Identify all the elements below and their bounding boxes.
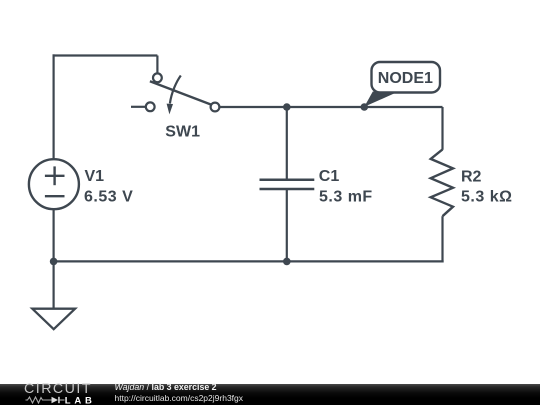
capacitor C1 — [260, 180, 315, 189]
junction dot at NODE1 — [361, 103, 369, 111]
NODE1 bubble — [372, 62, 441, 93]
V1 plus sign (positive pin side) — [45, 175, 65, 177]
SW1 blade — [150, 81, 212, 105]
svg-text:LAB: LAB — [65, 396, 95, 404]
SW1 top terminal — [153, 73, 162, 82]
junction dot at V1 bottom — [50, 258, 58, 266]
wire capacitor bottom lead — [286, 189, 288, 261]
SW1 closed terminal — [211, 103, 220, 112]
wire top net (switch to right corner) — [220, 106, 443, 108]
V1 minus sign (negative pin side) — [45, 195, 65, 197]
wire switch left stub — [131, 106, 146, 108]
wire top-left vertical (V1 top to corner) — [52, 54, 54, 159]
footer logo CIRCUIT — [24, 384, 92, 395]
svg-text:V1: V1 — [85, 168, 105, 185]
switch SW1 — [146, 73, 220, 114]
SW1 actuation arrow — [170, 76, 181, 104]
wire right vertical to resistor — [441, 107, 443, 150]
svg-text:6.53 V: 6.53 V — [84, 189, 133, 206]
NODE1 pointer tail — [364, 92, 398, 107]
wire bottom horizontal — [54, 260, 444, 262]
C1 bottom plate — [260, 188, 315, 191]
resistor R2 — [431, 149, 453, 216]
svg-text:NODE1: NODE1 — [378, 70, 433, 87]
wire switch top lead — [156, 56, 158, 74]
wire resistor to bottom corner — [441, 216, 443, 262]
svg-text:5.3 kΩ: 5.3 kΩ — [461, 189, 512, 206]
svg-text:R2: R2 — [461, 168, 482, 185]
svg-text:SW1: SW1 — [165, 123, 200, 140]
C1 top plate — [260, 178, 315, 181]
footer bar — [0, 384, 540, 405]
svg-text:5.3 mF: 5.3 mF — [319, 189, 373, 206]
SW1 open terminal — [146, 102, 155, 111]
footer logo symbol and LAB — [25, 396, 95, 404]
wire capacitor top lead — [286, 107, 288, 180]
junction dot at capacitor top — [283, 103, 291, 111]
footer title — [115, 384, 217, 392]
svg-text:C1: C1 — [319, 168, 340, 185]
voltage source V1 — [29, 159, 79, 209]
node NODE1 callout — [364, 62, 440, 107]
wire V1 bottom to ground — [52, 209, 54, 308]
V1 body circle — [29, 159, 79, 209]
footer url — [115, 394, 244, 402]
wire top horizontal (corner to switch top) — [53, 54, 158, 56]
ground — [32, 309, 75, 330]
junction dot at capacitor bottom — [283, 258, 291, 266]
